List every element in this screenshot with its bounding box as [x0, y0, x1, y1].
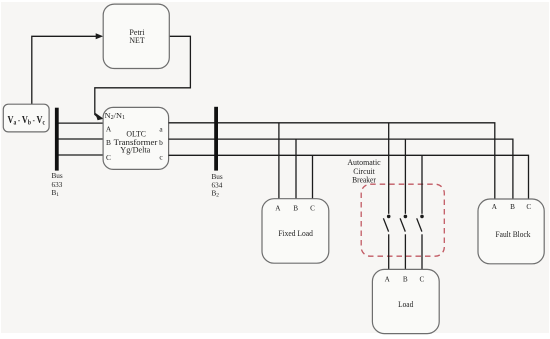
svg-text:A: A	[106, 125, 112, 134]
svg-text:A: A	[385, 276, 391, 284]
wire phase C from bus 633 to transformer pin C	[57, 154, 103, 156]
wire phase A from bus 633 to transformer pin A	[57, 122, 103, 124]
svg-text:Bus: Bus	[212, 173, 223, 181]
svg-text:C: C	[106, 153, 111, 162]
svg-text:B: B	[106, 138, 111, 147]
breaker pole C wire to load pin C	[421, 234, 423, 269]
circuit breaker CB1 dashed boundary	[361, 184, 444, 256]
svg-text:B: B	[403, 276, 408, 284]
fault block	[478, 199, 544, 264]
svg-text:B: B	[510, 203, 515, 211]
svg-text:b: b	[159, 138, 163, 147]
wire from Petri NET output down to transformer tap input N2/N1	[95, 36, 191, 116]
breaker pole C wire from phase c	[421, 155, 423, 214]
svg-text:NET: NET	[129, 36, 144, 45]
svg-text:Automatic: Automatic	[347, 158, 381, 167]
svg-text:634: 634	[212, 181, 223, 189]
svg-text:Yg/Delta: Yg/Delta	[120, 146, 150, 155]
bus 634 bar B2	[214, 107, 218, 171]
svg-text:A: A	[492, 203, 498, 211]
svg-text:C: C	[310, 204, 315, 212]
svg-text:C: C	[526, 203, 531, 211]
fixed load block	[262, 199, 329, 264]
wire drop phase b to fixed load pin B	[295, 139, 297, 199]
wire phase B from bus 633 to transformer pin B	[57, 138, 103, 140]
svg-text:A: A	[275, 204, 281, 212]
wire phase c from transformer pin c across bus 634 to fault block pin C	[169, 155, 529, 199]
svg-text:B: B	[293, 204, 298, 212]
load block	[372, 269, 439, 333]
breaker pole C contact dot	[420, 215, 424, 219]
bus 633 bar B1	[55, 108, 59, 171]
breaker pole B wire from phase b	[404, 139, 406, 214]
breaker pole B contact dot	[404, 215, 408, 219]
svg-text:Fixed Load: Fixed Load	[278, 228, 313, 238]
source block Va-Vb-Vc	[3, 104, 49, 132]
wire drop phase a to fixed load pin A	[278, 123, 280, 199]
breaker pole C switch blade	[417, 218, 422, 231]
svg-text:Fault Block: Fault Block	[496, 229, 532, 239]
svg-text:C: C	[420, 276, 425, 284]
wire phase a from transformer pin a across bus 634 to fault block pin A	[169, 123, 495, 199]
arrowhead into Petri NET input	[96, 33, 104, 39]
wire from Va-Vb-Vc source up and right to Petri NET input	[32, 36, 97, 104]
arrowhead into transformer N2/N1 corner	[95, 113, 104, 121]
breaker pole B wire to load pin B	[404, 234, 406, 269]
svg-text:Breaker: Breaker	[352, 176, 376, 185]
breaker pole A switch blade	[383, 218, 388, 231]
breaker pole A wire to load pin A	[388, 234, 390, 269]
breaker pole A contact dot	[387, 215, 391, 219]
breaker pole B switch blade	[400, 218, 405, 231]
controller block U1 Petri NET	[103, 4, 169, 68]
transformer T1 OLTC Yg/Delta block	[103, 107, 169, 169]
wire drop phase c to fixed load pin C	[312, 155, 314, 198]
svg-text:Bus: Bus	[52, 172, 63, 180]
svg-text:633: 633	[52, 181, 63, 189]
wire phase b from transformer pin b across bus 634 to fault block pin B	[169, 139, 513, 199]
breaker pole A wire from phase a	[388, 123, 390, 214]
svg-text:Load: Load	[398, 299, 414, 309]
svg-text:Va - Vb - Vc: Va - Vb - Vc	[8, 115, 46, 127]
